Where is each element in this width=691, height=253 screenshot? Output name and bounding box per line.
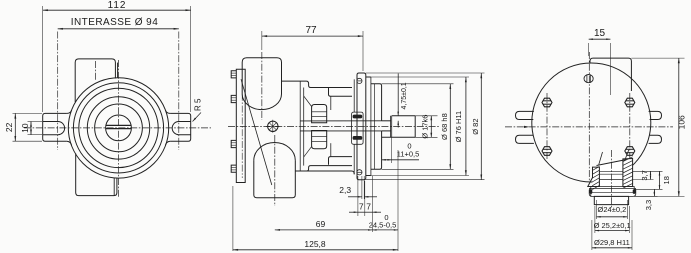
svg-text:7: 7 (359, 201, 364, 211)
svg-text:3,7: 3,7 (640, 170, 649, 180)
discharge bore lines (599, 170, 623, 172)
vertical centerline (118, 60, 120, 198)
dim 11+0,5 (391, 137, 393, 163)
discharge collar (589, 187, 636, 197)
dim O 17k6 (415, 115, 437, 117)
collar corner nub right (633, 189, 636, 194)
front view: bottom foot housing (76, 154, 117, 196)
side top port (242, 58, 281, 94)
flange recess ring (366, 76, 371, 78)
slot centerline right (178, 32, 180, 151)
collar corner nub left (589, 189, 592, 194)
shaft stub (382, 136, 416, 138)
rear right tab lower prong (649, 135, 662, 143)
dim 69 and 24,5-0,5 (397, 150, 399, 251)
svg-text:2,3: 2,3 (339, 185, 351, 195)
front view: port inner edge line (117, 63, 119, 78)
side bottom port (254, 160, 295, 197)
dim 125,8 (232, 186, 234, 251)
svg-text:4,75±0,1: 4,75±0,1 (401, 82, 408, 109)
dim 3,3 (634, 195, 658, 197)
casing inner wall lines (299, 81, 301, 171)
dim 3,7 (633, 170, 663, 172)
svg-text:112: 112 (108, 0, 127, 11)
bottom port centerline (274, 135, 276, 206)
hub slot lines (106, 124, 131, 126)
dim O 76 H11 (371, 76, 469, 78)
discharge bore line 3 (599, 179, 623, 181)
foot inner tube line (113, 178, 115, 196)
horizontal centerline (24, 127, 211, 129)
discharge right wall hatched (623, 159, 633, 187)
svg-text:7: 7 (366, 201, 371, 211)
flange disc (357, 73, 366, 180)
svg-text:125,8: 125,8 (304, 239, 326, 249)
cover plate edge (353, 79, 355, 112)
left tab fillets R5 (67, 110, 72, 113)
svg-text:11+0,5: 11+0,5 (397, 150, 420, 159)
svg-text:106: 106 (677, 115, 687, 129)
svg-text:15: 15 (594, 28, 606, 39)
hex bolt bottom-right (625, 147, 635, 156)
volute slope lower (304, 147, 312, 158)
svg-text:3,3: 3,3 (644, 200, 653, 210)
svg-text:0: 0 (407, 142, 411, 151)
impeller upper block (312, 105, 327, 123)
rear vertical centerline (588, 52, 590, 182)
svg-text:18: 18 (662, 176, 671, 184)
port centerline (95, 61, 97, 80)
hex bolt bottom-left (542, 147, 552, 156)
impeller lower block (312, 131, 327, 149)
seal ring lower (black) (353, 136, 363, 140)
casing step upper (329, 88, 353, 96)
hex bolt top-left (542, 98, 552, 107)
rear horizontal centerline (505, 126, 673, 128)
impeller chamber wall verticals (330, 96, 332, 110)
side view: mounting plate (236, 69, 245, 182)
volute slope upper (304, 96, 312, 107)
discharge centerline (610, 150, 612, 208)
neck wall right (625, 150, 629, 161)
svg-text:Ø 25,2±0,1: Ø 25,2±0,1 (594, 221, 631, 230)
rear left tab lower prong (516, 135, 534, 143)
dim 4,75+-0,1 (397, 74, 399, 116)
dim 18 (634, 188, 663, 190)
shaft inner lines (300, 120, 381, 122)
svg-text:10: 10 (20, 123, 30, 133)
svg-text:Ø 82: Ø 82 (471, 118, 480, 134)
svg-text:0: 0 (384, 213, 388, 222)
top port centerline (261, 52, 263, 120)
bolt column centerline left (546, 93, 548, 160)
discharge tip (594, 196, 628, 204)
plate bolt heads (231, 71, 236, 78)
svg-text:69: 69 (316, 219, 326, 229)
shaft hub circle (106, 115, 132, 141)
left tab slot (43, 122, 65, 135)
svg-text:R 5: R 5 (193, 98, 202, 111)
casing step lower (329, 157, 353, 165)
front view: pump body top port housing (75, 59, 115, 102)
section direction arrow (524, 126, 530, 128)
plate diagonal edge (241, 79, 272, 185)
svg-text:24,5-0,5: 24,5-0,5 (369, 220, 397, 229)
flange spigot (371, 84, 382, 121)
seal ring upper (black) (353, 115, 363, 119)
discharge port body (masks circle) (591, 159, 634, 205)
shaft reduced section (382, 120, 391, 122)
svg-text:Ø 68 h8: Ø 68 h8 (440, 113, 449, 140)
dimension 77 (261, 31, 263, 50)
cover screw top (357, 78, 362, 83)
svg-text:77: 77 (305, 25, 317, 36)
keyway step (390, 116, 392, 138)
casing outline top (282, 81, 353, 87)
dim O 68 h8 (382, 83, 454, 85)
slot centerline left (57, 32, 59, 151)
dimension 112 (42, 6, 44, 112)
right mounting tab (170, 113, 191, 141)
dim 106 (631, 57, 684, 59)
svg-text:Ø24±0,2: Ø24±0,2 (598, 205, 627, 214)
dimension 22 (13, 112, 43, 114)
cover screw bottom (357, 170, 362, 175)
dim 15 (588, 43, 590, 56)
neck wall left (599, 152, 603, 165)
dimension INTERASSE O 94 (58, 28, 179, 30)
rear top port boss (590, 58, 631, 91)
axis centerline (228, 126, 440, 128)
grease hole cross mark (268, 121, 278, 131)
svg-text:Ø 17k6: Ø 17k6 (421, 115, 430, 139)
right tab slot (172, 122, 191, 135)
dim O24+-0,2 (596, 200, 598, 219)
svg-text:Ø29,8 H11: Ø29,8 H11 (594, 238, 630, 247)
dim O 29,8 H11 (591, 220, 593, 250)
dim O 25,2+-0,1 (594, 206, 596, 233)
left mounting tab (43, 113, 67, 141)
dimension 10 (28, 121, 43, 123)
dim 2,3 (361, 176, 363, 199)
hex bolt top-right (625, 98, 635, 107)
bolt column centerline right (629, 93, 631, 160)
dim 7 7 (357, 176, 359, 216)
svg-text:INTERASSE Ø 94: INTERASSE Ø 94 (71, 17, 158, 28)
rear slotted screw (584, 75, 593, 83)
right tab fillets R5 (165, 110, 170, 113)
svg-text:Ø 76 H11: Ø 76 H11 (454, 111, 463, 143)
plate centerline (241, 82, 243, 178)
rear right tab upper prong (649, 111, 662, 119)
rear left tab upper prong (516, 111, 534, 119)
seal cartridge (352, 112, 364, 144)
svg-text:22: 22 (4, 122, 14, 132)
discharge port neck slope (597, 160, 627, 166)
rear view: flange circle (532, 63, 651, 182)
pump cover concentric circles (68, 78, 168, 178)
dim O 82 (366, 72, 485, 74)
casing outline bottom (295, 166, 352, 171)
discharge left wall hatched (588, 167, 600, 186)
